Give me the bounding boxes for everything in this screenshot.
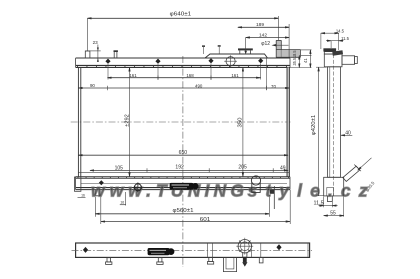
bottom-left end bracket <box>75 177 81 191</box>
leader phi12 <box>272 44 289 47</box>
stud below bottom rail left <box>95 190 100 196</box>
dim 11.5 side bottom <box>319 197 338 208</box>
svg-text:105: 105 <box>115 165 124 171</box>
svg-text:φ640±1: φ640±1 <box>170 11 192 17</box>
front logo plate <box>170 183 199 190</box>
svg-text:142: 142 <box>259 33 267 39</box>
dim 650 <box>78 154 288 156</box>
dim 292 vertical <box>129 67 131 176</box>
mounting pin diamonds on top rail <box>105 58 263 64</box>
dim row 90 490 70 <box>78 58 289 90</box>
svg-text:189: 189 <box>256 22 264 28</box>
svg-text:650: 650 <box>179 150 188 156</box>
svg-text:161: 161 <box>231 73 239 78</box>
front view top rail outline <box>76 54 290 67</box>
bottom view filler neck circle <box>236 238 253 255</box>
crosshair circle on bottom rail <box>133 182 143 192</box>
svg-text:192: 192 <box>175 165 184 171</box>
dim phi640 top line <box>88 16 279 51</box>
right side dims 35.5 / 41 <box>290 50 312 68</box>
svg-text:16: 16 <box>120 200 124 204</box>
dim 14.5 side <box>321 33 339 50</box>
front view: vertical centerline <box>182 56 184 267</box>
svg-text:205: 205 <box>238 165 247 171</box>
bottom view studs <box>106 257 263 264</box>
watermark <box>91 181 368 201</box>
svg-text:49: 49 <box>280 166 286 172</box>
dim 601 bottom <box>101 190 290 224</box>
side view bottom tank <box>324 177 344 196</box>
dim phi560 bottom <box>95 195 269 217</box>
top-left mounting bracket on rail <box>85 51 100 58</box>
svg-text:φ12: φ12 <box>261 41 270 47</box>
front view bottom rail outline <box>76 172 290 189</box>
svg-text:70: 70 <box>271 84 276 89</box>
bottom view centerline <box>72 249 313 251</box>
side view top cap <box>323 48 343 55</box>
filler circle on top rail <box>224 55 237 67</box>
dim row 161 168 161 <box>108 63 261 80</box>
svg-text:161: 161 <box>129 73 137 78</box>
leader to angled pipe <box>358 158 372 170</box>
dimension texts <box>81 11 376 223</box>
dim phi420 vertical <box>316 67 327 196</box>
dim 40 side <box>341 134 352 136</box>
svg-text:55: 55 <box>330 211 336 217</box>
side view inlet fitting right <box>342 56 357 65</box>
dim 11.5 side top <box>326 41 344 48</box>
svg-text:90: 90 <box>90 83 95 88</box>
dim 142 <box>244 38 289 55</box>
dim 16 mid tick <box>120 204 126 206</box>
side view body <box>327 54 340 196</box>
svg-text:601: 601 <box>200 217 211 223</box>
side view angled outlet pipe <box>343 165 361 182</box>
svg-text:14.5: 14.5 <box>336 28 345 33</box>
small stud on top rail <box>114 50 118 58</box>
front view core side channels <box>78 67 289 176</box>
radiator cap (front profile) <box>238 48 253 54</box>
bottom view bar <box>76 243 310 257</box>
tiny port marks above hump <box>202 45 221 54</box>
front view: horizontal core centerline <box>71 121 291 123</box>
svg-text:φ420±1: φ420±1 <box>311 114 317 135</box>
svg-text:490: 490 <box>195 84 203 89</box>
svg-text:±292: ±292 <box>125 114 131 127</box>
svg-text:41: 41 <box>303 58 308 63</box>
bleeder boss (gray) on hump <box>276 40 281 57</box>
drain stud below bottom rail right <box>270 186 275 209</box>
dim 23 vertical <box>97 45 99 63</box>
side view top tank <box>324 54 342 67</box>
bottom view diamonds <box>83 244 282 253</box>
svg-text:φ560±1: φ560±1 <box>173 208 194 214</box>
pin diamond on bottom rail <box>99 180 104 185</box>
svg-text:350: 350 <box>238 117 244 127</box>
bottom view filler stem and arrow <box>242 253 247 267</box>
svg-text:style.cz: style.cz <box>248 181 368 201</box>
svg-text:11.5: 11.5 <box>314 200 324 206</box>
svg-text:11.5: 11.5 <box>341 36 350 41</box>
svg-text:40: 40 <box>345 130 351 136</box>
svg-text:18.5: 18.5 <box>292 50 297 58</box>
bottom view U bracket <box>223 257 236 271</box>
dim 350 vertical <box>242 67 244 176</box>
drain fitting on bottom rail <box>251 176 260 193</box>
dim 55 side bottom <box>324 197 344 217</box>
top-right outlet pipe (gray) <box>276 50 301 58</box>
dim 16 bracket tick <box>78 196 86 198</box>
svg-text:23: 23 <box>93 40 99 45</box>
side view bottom stud <box>327 196 332 202</box>
bottom logo plate <box>148 248 175 255</box>
svg-text:168: 168 <box>186 73 194 78</box>
dim 189 <box>238 24 289 58</box>
dim row 105 192 205 49 <box>90 168 288 172</box>
svg-text:16: 16 <box>81 193 85 197</box>
